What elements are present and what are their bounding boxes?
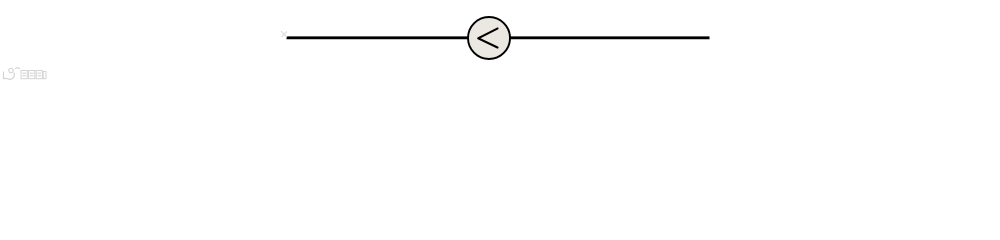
watermark (4, 68, 20, 80)
source symbol: '<' chevron (478, 29, 497, 48)
node mark: faint x at left wire end (281, 31, 287, 37)
wire right segment (509, 36, 710, 39)
source element: circle (468, 17, 510, 59)
wire left segment (287, 36, 470, 39)
